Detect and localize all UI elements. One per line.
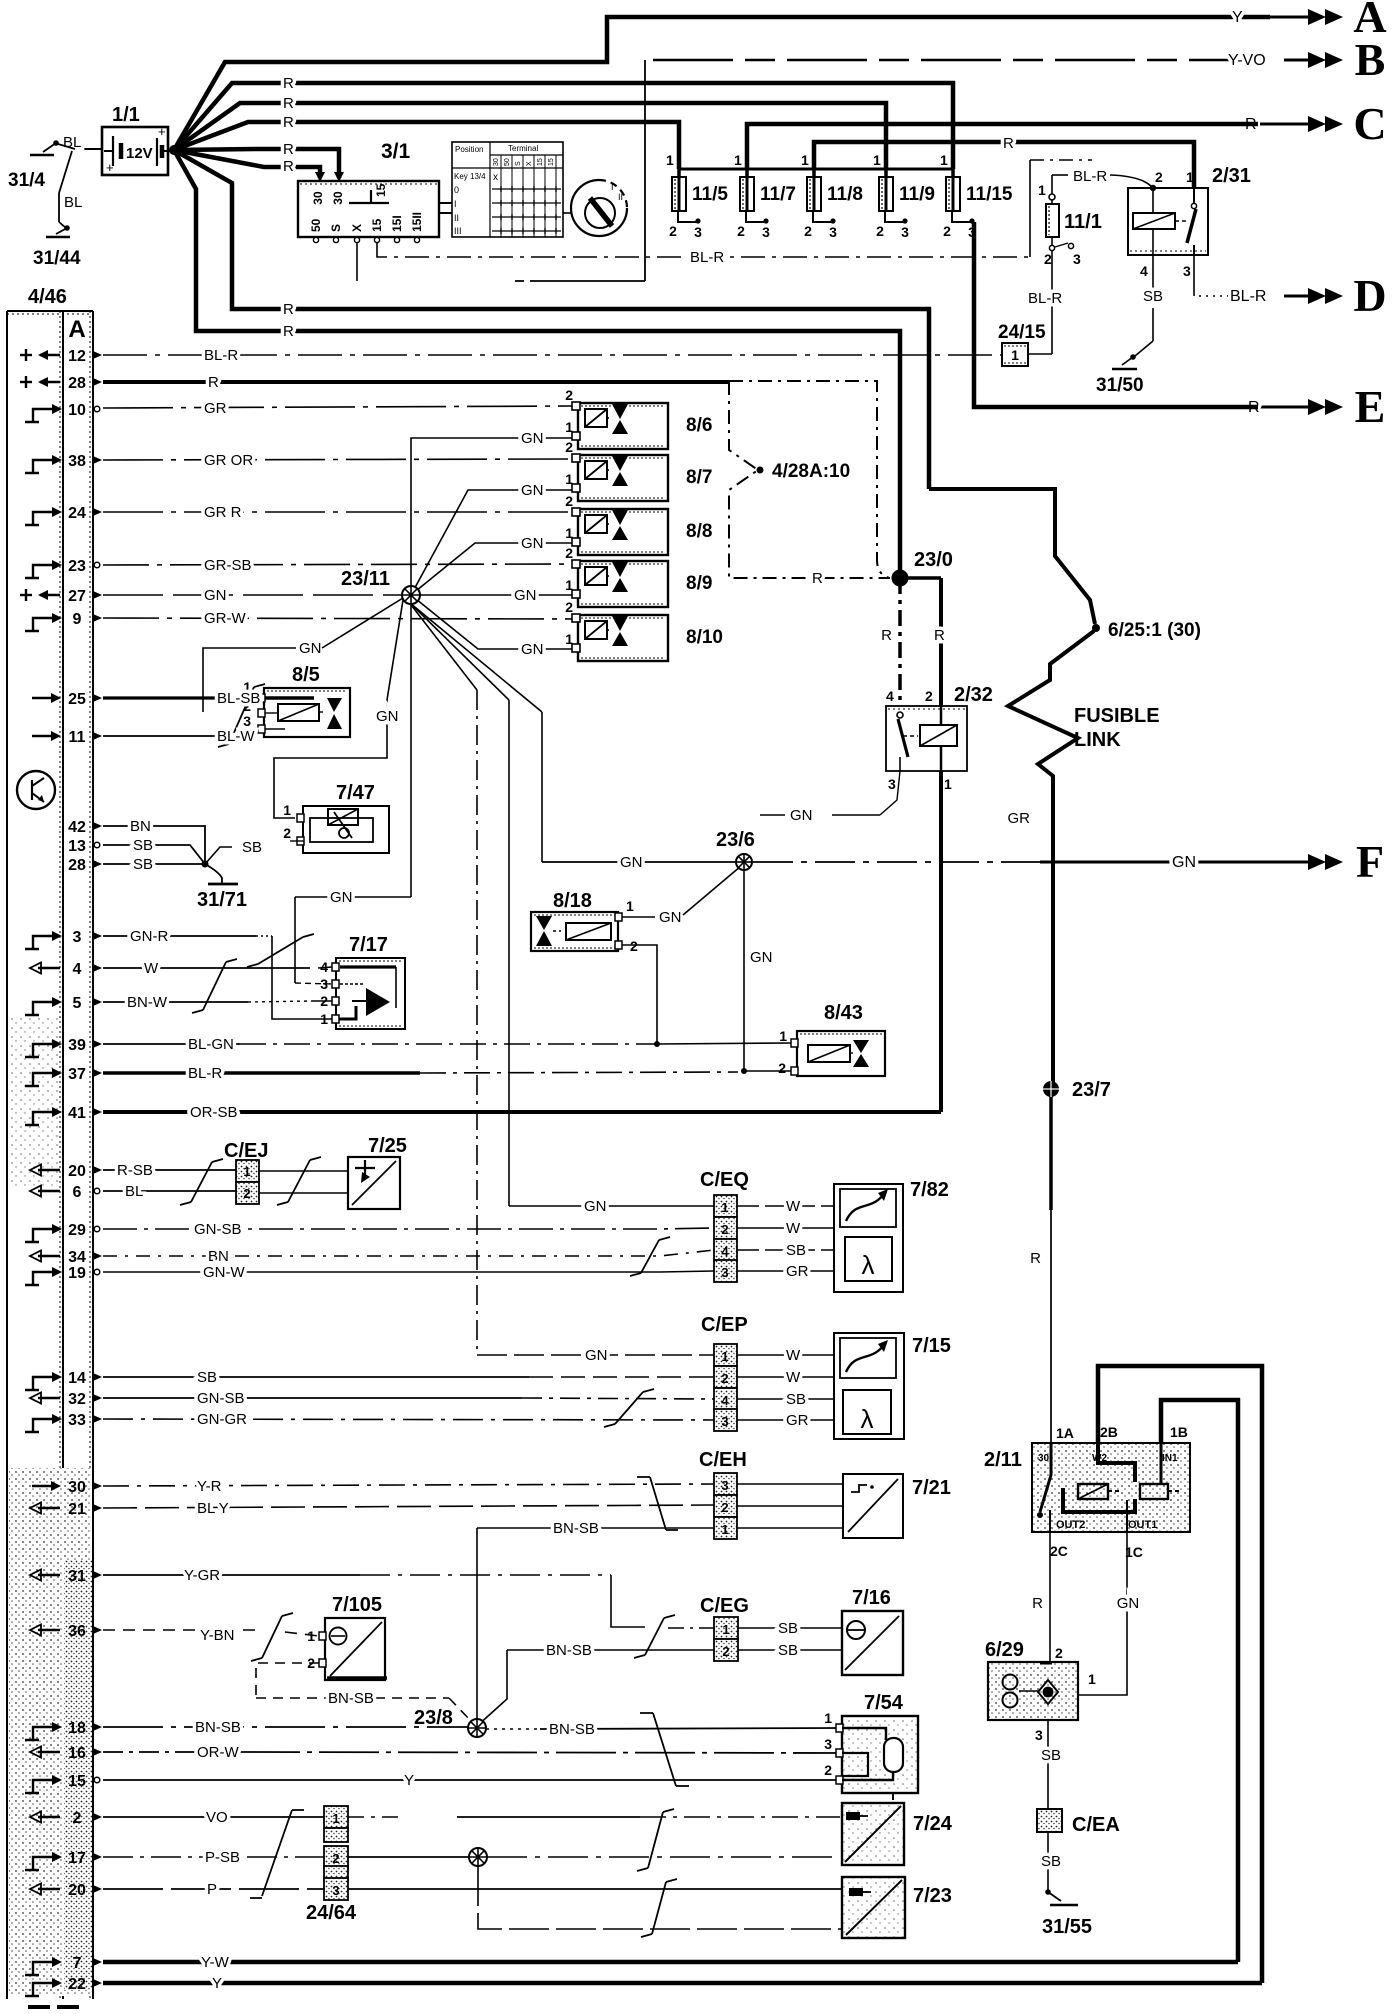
svg-text:3: 3 xyxy=(1035,1727,1043,1743)
wire 23/0 dash to 2/32 pin4 xyxy=(898,578,902,706)
svg-text:II: II xyxy=(454,213,459,223)
svg-text:R: R xyxy=(881,627,892,644)
wire GR-W pin9 to 8/10 xyxy=(103,618,572,619)
dash line ign 15 up right xyxy=(1029,160,1031,257)
wire BL pin6 xyxy=(103,1190,236,1192)
svg-text:GR-SB: GR-SB xyxy=(204,557,252,574)
wire BL-GN pin39 to junction xyxy=(103,1043,240,1045)
svg-text:R: R xyxy=(283,141,294,158)
svg-text:BL: BL xyxy=(125,1183,143,1200)
svg-text:2: 2 xyxy=(824,1762,832,1778)
svg-text:2: 2 xyxy=(737,223,745,239)
svg-text:C/EG: C/EG xyxy=(700,1595,749,1617)
svg-text:3: 3 xyxy=(332,1883,339,1898)
pin 30 xyxy=(32,1485,52,1487)
wire GN fan to C/EQ (x509) xyxy=(409,602,509,700)
svg-text:3/1: 3/1 xyxy=(381,140,411,163)
svg-text:C/EP: C/EP xyxy=(701,1314,748,1336)
svg-text:17: 17 xyxy=(68,1850,86,1867)
svg-text:OR-W: OR-W xyxy=(197,1744,239,1761)
switch internal 15 mark xyxy=(349,190,389,203)
svg-text:1: 1 xyxy=(283,802,291,818)
svg-text:2: 2 xyxy=(565,439,573,455)
gauge 7/25 xyxy=(348,1157,400,1209)
pin 6 xyxy=(38,1190,60,1192)
svg-text:Y-R: Y-R xyxy=(197,1478,222,1495)
svg-text:Y-W: Y-W xyxy=(201,1954,230,1971)
svg-text:19: 19 xyxy=(68,1265,86,1282)
svg-text:37: 37 xyxy=(68,1066,86,1083)
svg-text:SB: SB xyxy=(778,1620,798,1637)
11/1 pins 2 3 xyxy=(1051,237,1053,246)
svg-text:2/11: 2/11 xyxy=(984,1449,1022,1471)
svg-text:11/5: 11/5 xyxy=(692,184,728,205)
svg-text:30: 30 xyxy=(1038,1453,1050,1464)
svg-text:GN: GN xyxy=(659,909,682,926)
fuse 11/5 xyxy=(677,169,681,177)
dashed box 4/28A:10 xyxy=(729,381,890,578)
svg-text:21: 21 xyxy=(68,1501,86,1518)
wire 8/18 pin1 GN to 23/6 xyxy=(622,916,655,918)
wire BL-R pin12 to 24/15 xyxy=(103,354,1002,356)
svg-text:18: 18 xyxy=(68,1720,86,1737)
svg-text:D: D xyxy=(1353,270,1386,321)
junction 31/71 xyxy=(103,826,205,864)
wire P pin20 xyxy=(103,1888,324,1890)
svg-text:2: 2 xyxy=(721,1371,728,1386)
slash 8/5 feeds xyxy=(229,687,254,744)
wire GR-OR pin38 to 8/7 xyxy=(103,459,572,460)
svg-text:1: 1 xyxy=(721,1522,728,1537)
svg-text:GN: GN xyxy=(521,641,544,658)
svg-text:SB: SB xyxy=(133,837,153,854)
svg-text:16: 16 xyxy=(68,1745,86,1762)
svg-text:E: E xyxy=(1355,381,1386,432)
svg-text:23/11: 23/11 xyxy=(341,568,390,590)
svg-text:2: 2 xyxy=(332,1851,339,1866)
svg-text:34: 34 xyxy=(68,1249,86,1266)
svg-text:F: F xyxy=(1356,836,1384,887)
wire Y-BN pin36 dashed xyxy=(103,1629,255,1631)
svg-text:BN-SB: BN-SB xyxy=(195,1719,241,1736)
wire GN left hook y648 xyxy=(203,648,296,712)
svg-text:SB: SB xyxy=(786,1391,806,1408)
svg-text:GR R: GR R xyxy=(204,504,242,521)
svg-text:GN: GN xyxy=(521,482,544,499)
svg-text:GN: GN xyxy=(521,430,544,447)
wire GN to C/EQ pin1 xyxy=(509,1205,714,1207)
svg-text:7/15: 7/15 xyxy=(912,1335,951,1357)
fuse bus xyxy=(679,168,953,171)
svg-text:1: 1 xyxy=(940,152,948,168)
pin 17 xyxy=(25,1857,53,1870)
svg-text:3: 3 xyxy=(888,776,896,792)
svg-text:7/16: 7/16 xyxy=(852,1587,891,1609)
wire GR pin10 to 8/6 xyxy=(103,406,572,408)
svg-text:SB: SB xyxy=(778,1642,798,1659)
wire BN-SB down to 23/8 xyxy=(476,1528,478,1719)
svg-text:GN: GN xyxy=(1117,1595,1140,1612)
svg-text:Terminal: Terminal xyxy=(508,144,538,153)
wire SB to ground xyxy=(1047,1832,1049,1890)
svg-text:BN: BN xyxy=(208,1248,229,1265)
wire 2/32 pin1 down (OR-SB) xyxy=(939,771,943,1112)
wire 11/15 pin3 down to E xyxy=(974,222,1258,407)
svg-text:7: 7 xyxy=(73,1955,82,1972)
svg-text:C: C xyxy=(1353,98,1386,149)
svg-text:11/15: 11/15 xyxy=(966,184,1013,205)
injector 8/10 xyxy=(578,615,668,661)
wire 23/0 stub to x941 xyxy=(900,576,941,580)
wire fan to fuse 11/5 feed xyxy=(174,122,679,169)
svg-text:25: 25 xyxy=(68,691,86,708)
svg-text:C/EA: C/EA xyxy=(1072,1814,1120,1836)
svg-text:1: 1 xyxy=(1011,347,1019,363)
svg-text:2: 2 xyxy=(722,1644,729,1659)
injector 8/43 xyxy=(797,1031,885,1076)
svg-text:+: + xyxy=(158,124,166,139)
injector 8/9 xyxy=(578,561,668,607)
svg-text:C/EH: C/EH xyxy=(699,1449,747,1471)
svg-text:22: 22 xyxy=(68,1976,86,1993)
svg-text:8/18: 8/18 xyxy=(553,890,592,912)
pin 21 xyxy=(38,1507,60,1509)
svg-text:BL: BL xyxy=(64,194,82,211)
svg-text:GN-SB: GN-SB xyxy=(197,1390,245,1407)
svg-text:+: + xyxy=(106,160,114,175)
svg-text:1: 1 xyxy=(721,1349,728,1364)
svg-text:3: 3 xyxy=(824,1736,832,1752)
fuse 11/15 xyxy=(951,169,955,177)
svg-text:5: 5 xyxy=(73,995,82,1012)
wire 11/8 to relay 2/31 pin1 xyxy=(814,142,1194,188)
svg-text:λ: λ xyxy=(861,1404,874,1434)
svg-text:R: R xyxy=(208,374,219,391)
wire 11/1 pin2 down to 24/15 xyxy=(1051,251,1053,354)
speckle noise xyxy=(9,1468,91,1996)
svg-text:31/44: 31/44 xyxy=(33,248,81,269)
svg-text:R: R xyxy=(283,75,294,92)
svg-text:2: 2 xyxy=(804,223,812,239)
wire OR-SB pin41 xyxy=(103,1110,941,1114)
svg-text:SB: SB xyxy=(1143,288,1163,305)
svg-text:GN-W: GN-W xyxy=(203,1264,245,1281)
svg-text:31/71: 31/71 xyxy=(197,889,247,911)
svg-text:15II: 15II xyxy=(410,212,424,232)
svg-text:3: 3 xyxy=(762,224,770,240)
svg-text:9: 9 xyxy=(73,611,82,628)
pin 14 xyxy=(25,1377,53,1390)
wire GN to C/EP pin1 xyxy=(477,1354,714,1356)
svg-text:FUSIBLE: FUSIBLE xyxy=(1074,705,1160,727)
svg-text:Position: Position xyxy=(455,145,483,154)
svg-text:GN: GN xyxy=(790,807,813,824)
pin 15 xyxy=(25,1780,53,1793)
svg-text:3: 3 xyxy=(901,224,909,240)
svg-text:15: 15 xyxy=(370,218,384,232)
svg-text:32: 32 xyxy=(68,1391,86,1408)
pin 34 xyxy=(38,1255,60,1257)
svg-text:R: R xyxy=(934,627,945,644)
svg-text:41: 41 xyxy=(68,1105,86,1122)
svg-text:1: 1 xyxy=(332,1811,339,1826)
svg-text:8/8: 8/8 xyxy=(686,521,712,542)
svg-text:2: 2 xyxy=(565,599,573,615)
svg-text:SB: SB xyxy=(133,856,153,873)
wire 8/18 pin2 down xyxy=(622,945,657,1044)
injector 8/6 xyxy=(578,403,668,449)
svg-text:1: 1 xyxy=(243,1164,250,1179)
svg-text:GN: GN xyxy=(620,854,643,871)
svg-text:GN-R: GN-R xyxy=(130,928,168,945)
wire W pin4 xyxy=(103,967,310,969)
svg-text:1: 1 xyxy=(565,419,573,435)
wire pin X stub xyxy=(356,243,358,281)
wire R 2/11 2C to 6/29 pin2 xyxy=(1049,1532,1051,1663)
svg-text:8/6: 8/6 xyxy=(686,415,712,436)
svg-text:2: 2 xyxy=(1155,169,1163,185)
svg-text:Y-GR: Y-GR xyxy=(184,1567,220,1584)
svg-text:23/6: 23/6 xyxy=(716,829,755,851)
svg-text:11/1: 11/1 xyxy=(1064,211,1102,233)
svg-text:Y: Y xyxy=(212,1975,222,1992)
wire SB pin14 xyxy=(103,1376,529,1378)
svg-text:BN-SB: BN-SB xyxy=(328,1690,374,1707)
arrow E xyxy=(1255,406,1308,409)
svg-text:12V: 12V xyxy=(126,145,153,162)
sensor 7/82 xyxy=(834,1184,903,1292)
svg-text:Y-BN: Y-BN xyxy=(200,1627,234,1644)
svg-text:38: 38 xyxy=(68,453,86,470)
svg-text:23/8: 23/8 xyxy=(414,1707,453,1729)
wire battery fan to A xyxy=(174,17,1270,150)
svg-text:BL-R: BL-R xyxy=(1230,288,1266,305)
wire GN-W pin19 xyxy=(103,1271,714,1272)
svg-text:1: 1 xyxy=(1088,1671,1096,1687)
svg-text:2: 2 xyxy=(721,1222,728,1237)
ECU symbol circle xyxy=(17,771,55,809)
wire fan to fuse 11/9 feed xyxy=(174,103,886,169)
svg-text:11/9: 11/9 xyxy=(899,184,935,205)
svg-text:23/0: 23/0 xyxy=(914,549,953,571)
svg-text:R: R xyxy=(283,301,294,318)
wire GN fan to 23/6 (x542) xyxy=(410,603,542,712)
svg-text:C/EJ: C/EJ xyxy=(224,1140,268,1162)
svg-text:GR: GR xyxy=(1008,810,1031,827)
pin 29 xyxy=(25,1229,53,1242)
svg-text:2: 2 xyxy=(778,1060,786,1076)
wire GN fan to 8/10 xyxy=(411,595,572,649)
wire fan to switch pin 30 left xyxy=(174,150,320,178)
wire R pin28 to 4/28A xyxy=(103,380,729,384)
arrow C xyxy=(1260,123,1308,126)
wire SB 6/29 pin3 to C/EA xyxy=(1047,1721,1049,1809)
svg-text:10: 10 xyxy=(68,402,86,419)
svg-text:BN-SB: BN-SB xyxy=(546,1642,592,1659)
svg-text:R: R xyxy=(1003,135,1014,152)
wire BL-R pin37 xyxy=(103,1071,420,1075)
wire GN fan to 8/9 xyxy=(420,594,572,596)
pin 41 xyxy=(25,1112,53,1125)
svg-text:3: 3 xyxy=(721,1414,728,1429)
svg-text:28: 28 xyxy=(68,857,86,874)
wire GN y895 xyxy=(295,896,411,898)
svg-text:7/25: 7/25 xyxy=(368,1135,407,1157)
key cylinder symbol xyxy=(571,180,627,236)
slash 7/54 feeds xyxy=(640,1713,689,1786)
svg-text:30: 30 xyxy=(68,1479,86,1496)
wire pin 15 BL-R dashed xyxy=(377,243,1029,257)
svg-text:2: 2 xyxy=(73,1810,82,1827)
svg-text:1: 1 xyxy=(1186,169,1194,185)
svg-text:SB: SB xyxy=(1041,1853,1061,1870)
svg-text:R-SB: R-SB xyxy=(117,1162,153,1179)
pin 4 xyxy=(38,967,60,969)
svg-text:2: 2 xyxy=(669,223,677,239)
svg-text:BN-W: BN-W xyxy=(127,994,168,1011)
wire BL-Y pin21 xyxy=(103,1505,714,1508)
svg-text:23/7: 23/7 xyxy=(1072,1079,1111,1101)
injector 8/8 xyxy=(578,509,668,555)
svg-text:4: 4 xyxy=(1140,263,1148,279)
svg-text:BN: BN xyxy=(130,818,151,835)
svg-text:S: S xyxy=(329,224,343,232)
wire GN-SB pin32 xyxy=(103,1397,522,1399)
svg-text:BN-SB: BN-SB xyxy=(549,1721,595,1738)
svg-text:R: R xyxy=(283,323,294,340)
wire Y-VO B line xyxy=(653,59,1255,62)
svg-text:3: 3 xyxy=(968,224,976,240)
wire P-SB pin17 xyxy=(103,1856,324,1858)
svg-text:29: 29 xyxy=(68,1222,86,1239)
svg-text:2: 2 xyxy=(565,387,573,403)
wire battery negative BL stub xyxy=(75,148,102,150)
svg-text:BN-SB: BN-SB xyxy=(553,1520,599,1537)
svg-text:BL-GN: BL-GN xyxy=(188,1036,234,1053)
svg-text:7/82: 7/82 xyxy=(910,1179,949,1201)
arrow A xyxy=(1255,16,1308,19)
svg-text:Y: Y xyxy=(404,1772,414,1789)
connector 4/46 outer housing xyxy=(7,311,93,1999)
svg-text:11: 11 xyxy=(69,729,86,746)
svg-text:3: 3 xyxy=(1073,251,1081,267)
svg-text:4: 4 xyxy=(73,961,82,978)
svg-text:GN: GN xyxy=(299,640,322,657)
wire GN fan to 7/47 pin1 xyxy=(274,600,403,818)
svg-text:GR-W: GR-W xyxy=(204,610,246,627)
ignition switch 3/1 xyxy=(298,181,439,237)
svg-text:x: x xyxy=(493,172,498,183)
wire fan down to R bus lower (y331) xyxy=(174,150,900,578)
svg-text:GN: GN xyxy=(750,949,773,966)
svg-text:2/32: 2/32 xyxy=(954,684,993,706)
svg-text:8/9: 8/9 xyxy=(686,573,712,594)
svg-text:I: I xyxy=(611,182,614,192)
wire fan to switch pin 30 right xyxy=(174,149,339,178)
svg-text:Key 13/4: Key 13/4 xyxy=(454,172,486,181)
bottom dashes xyxy=(28,2005,50,2009)
relay 7/105 xyxy=(325,1618,385,1680)
fusible link xyxy=(929,489,1095,624)
svg-text:24/64: 24/64 xyxy=(306,1902,357,1924)
svg-text:1: 1 xyxy=(944,776,952,792)
wire fan down to R bus upper (y309) xyxy=(174,150,929,489)
svg-text:3: 3 xyxy=(721,1478,728,1493)
connector 24/64 xyxy=(324,1806,348,1828)
svg-text:GN-SB: GN-SB xyxy=(194,1221,242,1238)
wire GN-R pin3 path to 7/17 pin1 xyxy=(103,935,256,937)
svg-text:11/7: 11/7 xyxy=(760,184,796,205)
relay module 2/11 xyxy=(1032,1443,1190,1532)
svg-text:S: S xyxy=(515,161,522,166)
svg-text:BL-R: BL-R xyxy=(188,1065,222,1082)
svg-text:OUT2: OUT2 xyxy=(1056,1519,1085,1531)
wire GN-GR pin33 xyxy=(103,1419,714,1420)
svg-text:P: P xyxy=(207,1881,217,1898)
svg-text:30: 30 xyxy=(493,158,500,166)
relay 2/32 xyxy=(886,706,967,771)
svg-text:2C: 2C xyxy=(1050,1543,1068,1559)
pin 5 xyxy=(25,1002,53,1015)
pin 27 xyxy=(20,594,32,596)
wire R-SB pin20 xyxy=(103,1169,236,1171)
pin 3 xyxy=(25,936,53,949)
svg-text:GR: GR xyxy=(786,1412,809,1429)
svg-text:BL-R: BL-R xyxy=(690,249,724,266)
svg-text:7/21: 7/21 xyxy=(912,1477,951,1499)
solenoid 8/5 xyxy=(264,688,350,737)
svg-text:R: R xyxy=(283,114,294,131)
fuse 11/8 xyxy=(812,169,816,177)
svg-text:OR-SB: OR-SB xyxy=(190,1104,238,1121)
svg-text:30: 30 xyxy=(331,191,345,205)
wire BN-SB to C/EG pin2 xyxy=(507,1649,714,1651)
ground 31/55 xyxy=(1045,1889,1051,1895)
pin 16 xyxy=(38,1751,60,1753)
wire BN-SB pin18 xyxy=(103,1726,468,1728)
svg-text:42: 42 xyxy=(68,819,86,836)
svg-text:3: 3 xyxy=(694,224,702,240)
svg-text:33: 33 xyxy=(68,1412,86,1429)
fuse 11/7 xyxy=(745,169,749,177)
svg-text:7/17: 7/17 xyxy=(349,934,388,956)
svg-text:I: I xyxy=(454,199,457,209)
svg-text:Y-VO: Y-VO xyxy=(1228,52,1266,69)
svg-text:6/29: 6/29 xyxy=(985,1639,1024,1661)
svg-text:LINK: LINK xyxy=(1074,729,1121,751)
pin 10 xyxy=(25,409,53,422)
svg-text:R: R xyxy=(283,158,294,175)
svg-text:1: 1 xyxy=(721,1200,728,1215)
wire GR-SB pin23 to 8/9 xyxy=(103,564,572,565)
pin 20 xyxy=(38,1888,60,1890)
arrow B xyxy=(1284,59,1308,62)
ignition key position table xyxy=(452,142,563,237)
pin 9 xyxy=(25,618,53,631)
svg-text:2: 2 xyxy=(243,1186,250,1201)
wire GN-SB pin29 xyxy=(103,1228,714,1229)
svg-text:1: 1 xyxy=(565,471,573,487)
wire GN pin27 to 23/11 xyxy=(103,594,402,596)
wire BN pin34 xyxy=(103,1250,714,1256)
pin 22 xyxy=(25,1983,53,1996)
svg-text:8/43: 8/43 xyxy=(824,1002,863,1024)
wire GN fan to 8/7 xyxy=(411,490,572,595)
svg-text:15: 15 xyxy=(374,183,388,197)
wire BN-W pin5 xyxy=(103,1001,248,1003)
svg-text:36: 36 xyxy=(68,1623,86,1640)
pin 37 xyxy=(25,1073,53,1086)
